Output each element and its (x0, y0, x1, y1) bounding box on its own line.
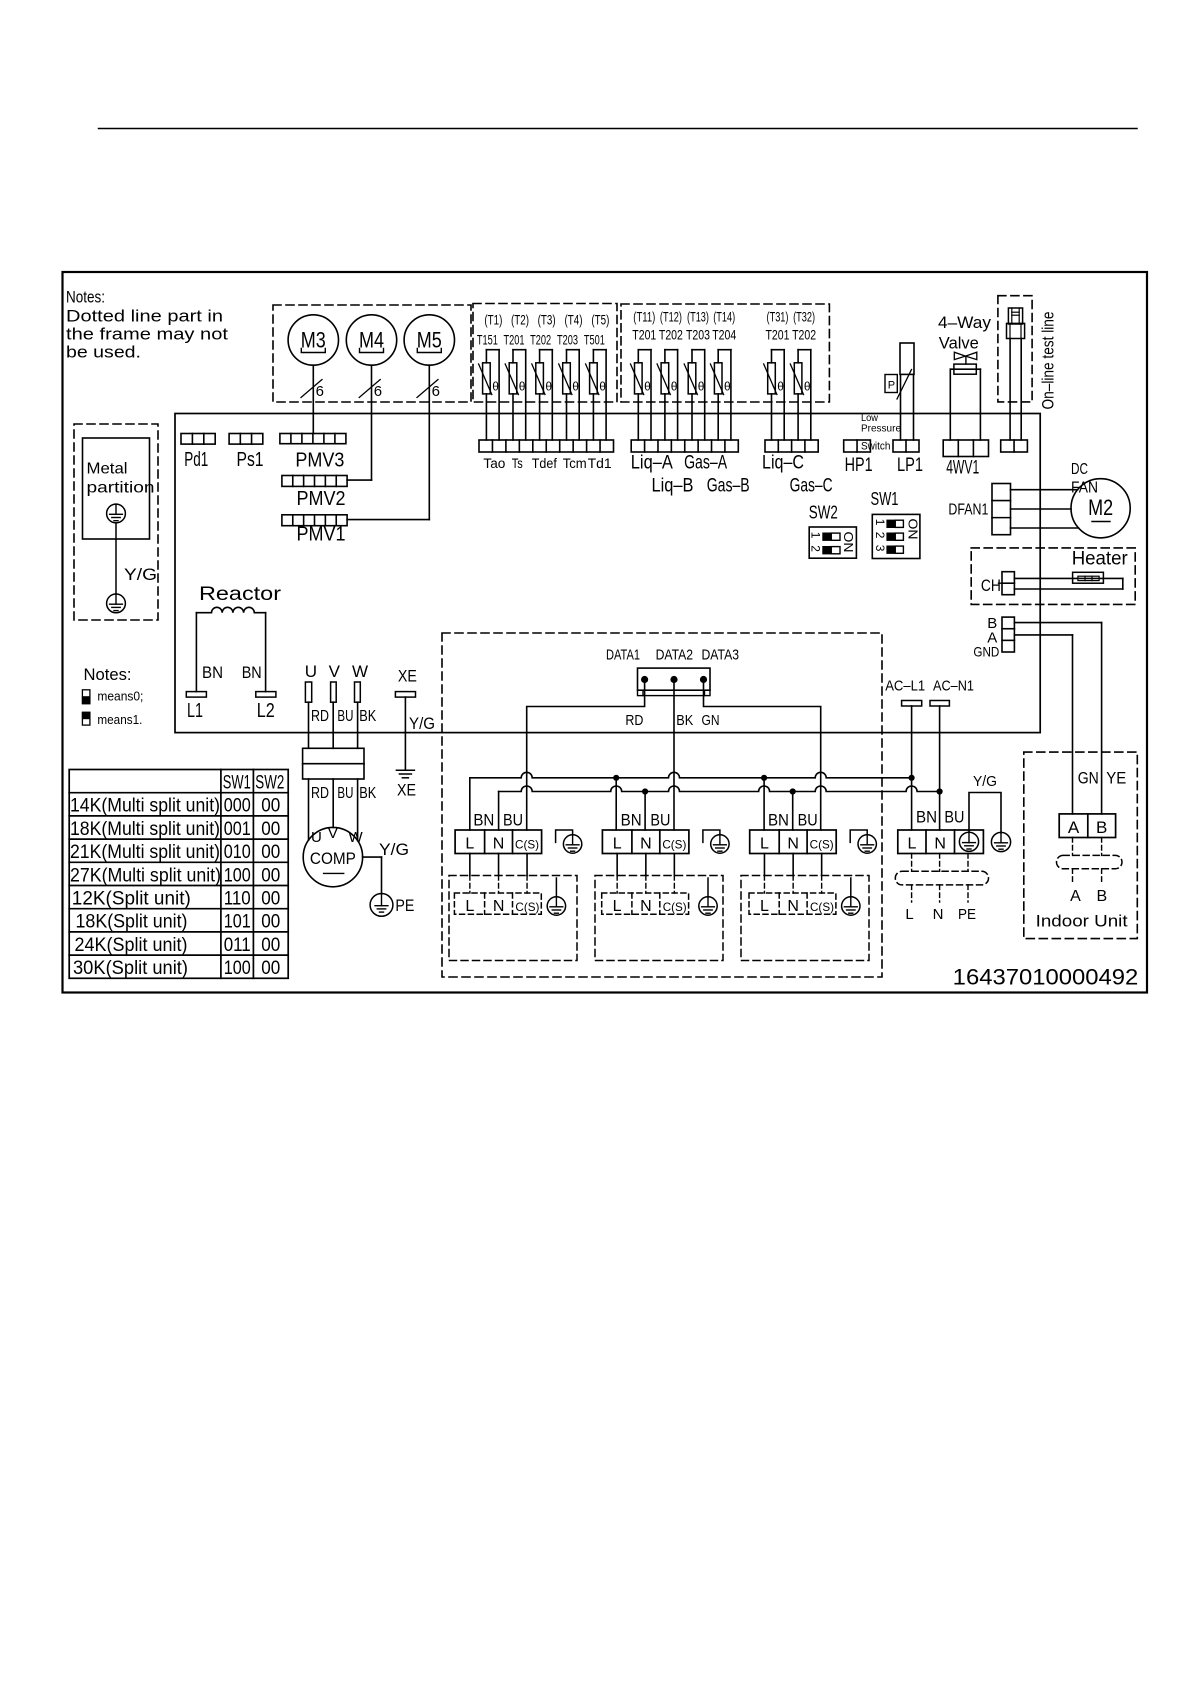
svg-text:(T1): (T1) (484, 313, 502, 328)
svg-text:Gas–B: Gas–B (707, 475, 750, 496)
svg-text:N: N (787, 898, 799, 915)
svg-text:DFAN1: DFAN1 (948, 502, 988, 519)
svg-text:(T3): (T3) (538, 313, 556, 328)
svg-text:Switch: Switch (861, 441, 891, 453)
svg-text:XE: XE (397, 780, 416, 799)
svg-text:4WV1: 4WV1 (946, 457, 979, 478)
svg-text:T151: T151 (477, 332, 498, 347)
svg-text:YE: YE (1106, 769, 1126, 788)
svg-text:PMV1: PMV1 (297, 524, 346, 546)
svg-text:ON: ON (906, 519, 921, 540)
svg-text:4–Way: 4–Way (938, 313, 992, 332)
svg-text:BN: BN (473, 810, 494, 829)
svg-text:(T12): (T12) (660, 310, 682, 325)
svg-text:T202: T202 (792, 327, 816, 342)
svg-text:the frame may not: the frame may not (66, 325, 228, 344)
svg-text:N: N (933, 906, 944, 923)
svg-text:N: N (934, 836, 946, 853)
svg-text:Liq–C: Liq–C (762, 453, 804, 474)
svg-text:Reactor: Reactor (199, 584, 282, 605)
svg-text:L: L (465, 898, 474, 915)
svg-text:BN: BN (242, 663, 262, 682)
svg-text:010: 010 (224, 842, 251, 863)
svg-text:1: 1 (873, 519, 887, 526)
svg-text:110: 110 (224, 889, 251, 910)
svg-text:U: U (305, 662, 317, 681)
svg-text:SW1: SW1 (223, 773, 251, 794)
svg-text:Pd1: Pd1 (184, 449, 208, 471)
svg-text:BN: BN (916, 808, 937, 827)
svg-text:C(S): C(S) (515, 838, 539, 852)
svg-text:BU: BU (337, 708, 353, 725)
svg-text:BU: BU (650, 810, 670, 829)
svg-text:00: 00 (261, 958, 280, 979)
svg-text:101: 101 (224, 912, 251, 933)
svg-text:θ: θ (572, 380, 579, 394)
svg-text:Metal: Metal (87, 461, 128, 478)
svg-text:θ: θ (804, 380, 811, 394)
svg-text:θ: θ (671, 380, 678, 394)
svg-text:BN: BN (768, 810, 789, 829)
svg-text:18K(Multi split unit): 18K(Multi split unit) (70, 819, 220, 840)
svg-text:M5: M5 (417, 328, 442, 353)
svg-text:N: N (640, 898, 652, 915)
svg-text:T202: T202 (659, 327, 683, 342)
svg-text:AC–N1: AC–N1 (933, 678, 974, 695)
svg-text:(T13): (T13) (687, 310, 709, 325)
svg-text:Pressure: Pressure (861, 423, 901, 435)
svg-text:BN: BN (621, 810, 642, 829)
svg-text:HP1: HP1 (845, 455, 873, 476)
svg-text:011: 011 (224, 935, 251, 956)
svg-text:θ: θ (545, 380, 552, 394)
svg-text:00: 00 (261, 842, 280, 863)
svg-text:DATA2: DATA2 (656, 647, 694, 664)
svg-text:21K(Multi split unit): 21K(Multi split unit) (70, 842, 220, 863)
svg-text:BU: BU (944, 808, 964, 827)
svg-text:M4: M4 (359, 328, 384, 353)
svg-text:means1.: means1. (97, 713, 142, 727)
svg-text:C(S): C(S) (810, 838, 834, 852)
svg-text:(T5): (T5) (591, 313, 609, 328)
svg-text:16437010000492: 16437010000492 (953, 965, 1139, 990)
svg-text:SW1: SW1 (871, 489, 899, 509)
svg-text:Notes:: Notes: (66, 288, 105, 307)
svg-text:L: L (905, 906, 913, 923)
svg-text:Ts: Ts (512, 456, 523, 471)
svg-text:12K(Split unit): 12K(Split unit) (72, 889, 191, 910)
svg-text:BK: BK (359, 785, 377, 802)
svg-text:Heater: Heater (1072, 549, 1129, 570)
svg-text:A: A (1068, 818, 1080, 837)
svg-text:DATA3: DATA3 (702, 647, 740, 664)
svg-text:Y/G: Y/G (379, 840, 409, 859)
svg-text:00: 00 (261, 935, 280, 956)
svg-text:Gas–A: Gas–A (684, 453, 727, 474)
svg-text:Y/G: Y/G (973, 773, 997, 790)
svg-text:Gas–C: Gas–C (790, 475, 833, 496)
svg-text:Valve: Valve (939, 333, 979, 352)
svg-text:L: L (613, 836, 622, 853)
svg-text:14K(Multi split unit): 14K(Multi split unit) (70, 796, 220, 817)
svg-text:θ: θ (599, 380, 606, 394)
svg-text:BN: BN (202, 663, 223, 682)
svg-text:(T4): (T4) (565, 313, 583, 328)
svg-text:On–line test line: On–line test line (1039, 312, 1058, 410)
svg-text:LP1: LP1 (897, 455, 923, 476)
svg-text:00: 00 (261, 889, 280, 910)
svg-text:T203: T203 (557, 332, 578, 347)
svg-text:30K(Split unit): 30K(Split unit) (73, 958, 188, 979)
svg-text:B: B (1096, 888, 1107, 905)
svg-text:T203: T203 (686, 327, 710, 342)
svg-text:BK: BK (676, 712, 693, 729)
svg-text:100: 100 (224, 958, 251, 979)
svg-text:(T32): (T32) (793, 310, 815, 325)
svg-text:BU: BU (798, 810, 818, 829)
svg-text:Indoor Unit: Indoor Unit (1036, 913, 1128, 931)
svg-text:COMP: COMP (310, 849, 356, 868)
svg-text:2: 2 (809, 545, 823, 552)
svg-text:L: L (760, 898, 769, 915)
svg-text:θ: θ (724, 380, 731, 394)
svg-text:partition: partition (87, 480, 155, 497)
svg-text:PE: PE (395, 896, 414, 915)
svg-text:18K(Split unit): 18K(Split unit) (76, 912, 188, 933)
svg-text:T501: T501 (584, 332, 605, 347)
svg-text:Dotted line part in: Dotted line part in (66, 307, 223, 326)
svg-text:1: 1 (809, 532, 823, 539)
svg-text:M2: M2 (1088, 495, 1113, 520)
svg-text:L2: L2 (257, 700, 275, 722)
svg-text:001: 001 (224, 819, 251, 840)
svg-text:00: 00 (261, 819, 280, 840)
svg-text:C(S): C(S) (663, 900, 687, 914)
svg-text:(T14): (T14) (713, 310, 735, 325)
svg-text:BK: BK (359, 708, 377, 725)
svg-text:Tdef: Tdef (532, 456, 557, 471)
svg-text:(T11): (T11) (633, 310, 655, 325)
svg-text:PMV2: PMV2 (297, 488, 346, 510)
svg-text:W: W (352, 662, 368, 681)
svg-text:N: N (640, 836, 652, 853)
svg-text:means0;: means0; (97, 690, 143, 704)
svg-text:3: 3 (873, 545, 887, 552)
svg-text:L: L (465, 836, 474, 853)
svg-text:BU: BU (337, 785, 353, 802)
svg-text:C(S): C(S) (810, 900, 834, 914)
svg-text:A: A (1070, 888, 1081, 905)
svg-text:Td1: Td1 (588, 456, 612, 471)
svg-text:ON: ON (841, 532, 856, 553)
svg-text:V: V (329, 662, 341, 681)
svg-text:be used.: be used. (66, 343, 141, 362)
svg-text:00: 00 (261, 912, 280, 933)
svg-text:T201: T201 (504, 332, 525, 347)
svg-text:L: L (760, 836, 769, 853)
svg-text:θ: θ (492, 380, 499, 394)
svg-text:6: 6 (432, 383, 440, 400)
svg-text:6: 6 (316, 383, 324, 400)
svg-text:DATA1: DATA1 (606, 647, 640, 664)
svg-text:θ: θ (519, 380, 526, 394)
svg-text:Tcm: Tcm (563, 456, 587, 471)
svg-text:B: B (1096, 818, 1107, 837)
svg-text:N: N (493, 836, 505, 853)
svg-text:W: W (349, 829, 364, 846)
svg-text:AC–L1: AC–L1 (885, 678, 925, 695)
svg-text:C(S): C(S) (662, 838, 686, 852)
svg-text:000: 000 (224, 796, 251, 817)
svg-text:V: V (328, 825, 338, 842)
svg-text:RD: RD (311, 785, 329, 802)
svg-text:(T31): (T31) (767, 310, 789, 325)
svg-text:24K(Split unit): 24K(Split unit) (75, 935, 188, 956)
svg-text:00: 00 (261, 796, 280, 817)
svg-text:C(S): C(S) (515, 900, 539, 914)
svg-text:GND: GND (973, 643, 999, 659)
svg-text:00: 00 (261, 865, 280, 886)
svg-text:XE: XE (398, 667, 417, 686)
svg-text:Y/G: Y/G (124, 565, 157, 584)
svg-text:L: L (907, 836, 916, 853)
svg-text:U: U (311, 829, 322, 846)
svg-text:CH: CH (981, 576, 1001, 595)
svg-text:L1: L1 (187, 700, 203, 722)
svg-text:(T2): (T2) (511, 313, 529, 328)
svg-text:Notes:: Notes: (84, 665, 132, 684)
svg-text:Liq–A: Liq–A (631, 453, 673, 474)
svg-text:6: 6 (374, 383, 382, 400)
svg-text:N: N (787, 836, 799, 853)
svg-text:DC: DC (1071, 461, 1088, 478)
svg-text:100: 100 (224, 865, 251, 886)
svg-text:L: L (613, 898, 622, 915)
svg-text:T204: T204 (712, 327, 736, 342)
svg-text:θ: θ (698, 380, 705, 394)
svg-text:SW2: SW2 (809, 503, 838, 523)
svg-text:BU: BU (503, 810, 523, 829)
svg-text:N: N (493, 898, 505, 915)
svg-text:Ps1: Ps1 (237, 449, 264, 471)
svg-text:27K(Multi split unit): 27K(Multi split unit) (70, 865, 221, 886)
svg-text:M3: M3 (301, 328, 326, 353)
svg-text:PE: PE (958, 906, 976, 923)
svg-text:θ: θ (777, 380, 784, 394)
svg-text:θ: θ (644, 380, 651, 394)
svg-text:RD: RD (625, 712, 643, 729)
svg-text:GN: GN (702, 712, 720, 729)
svg-text:SW2: SW2 (255, 773, 284, 794)
svg-text:T202: T202 (530, 332, 551, 347)
svg-text:GN: GN (1078, 769, 1099, 788)
svg-text:Liq–B: Liq–B (652, 475, 694, 496)
svg-text:RD: RD (311, 708, 329, 725)
svg-text:Tao: Tao (483, 456, 505, 471)
svg-text:P: P (888, 380, 895, 392)
svg-text:T201: T201 (632, 327, 656, 342)
svg-text:Y/G: Y/G (409, 714, 435, 733)
svg-text:2: 2 (873, 532, 887, 539)
svg-text:T201: T201 (766, 327, 790, 342)
svg-text:PMV3: PMV3 (295, 450, 344, 472)
